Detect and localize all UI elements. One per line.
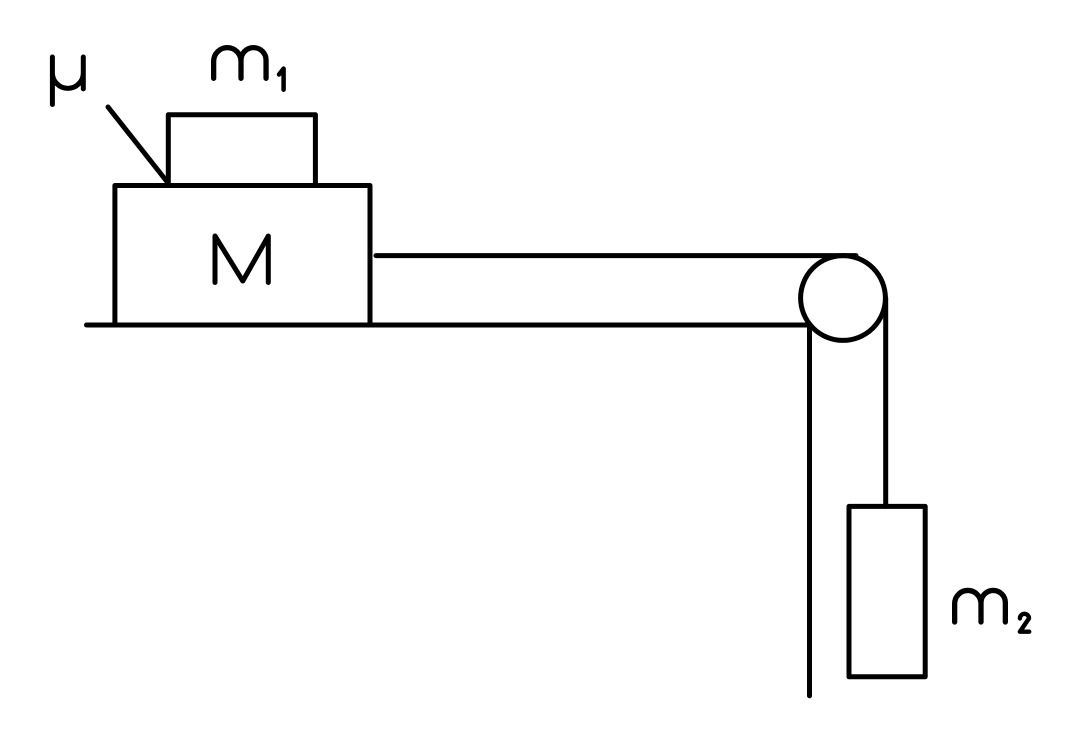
mu pointer line [108, 107, 167, 182]
label m1 subscript 1 [279, 69, 284, 90]
label m2 subscript 2 [1020, 614, 1029, 632]
block M [115, 186, 370, 326]
label m2 [955, 590, 1006, 621]
label M [215, 236, 268, 283]
block m1 [168, 115, 315, 186]
block m2 [849, 506, 925, 676]
rope vertical [883, 298, 888, 506]
label mu [52, 57, 83, 105]
label m1 [214, 48, 266, 79]
pulley [801, 256, 886, 341]
rope horizontal [376, 253, 856, 258]
ground / table top and right edge [87, 325, 810, 696]
